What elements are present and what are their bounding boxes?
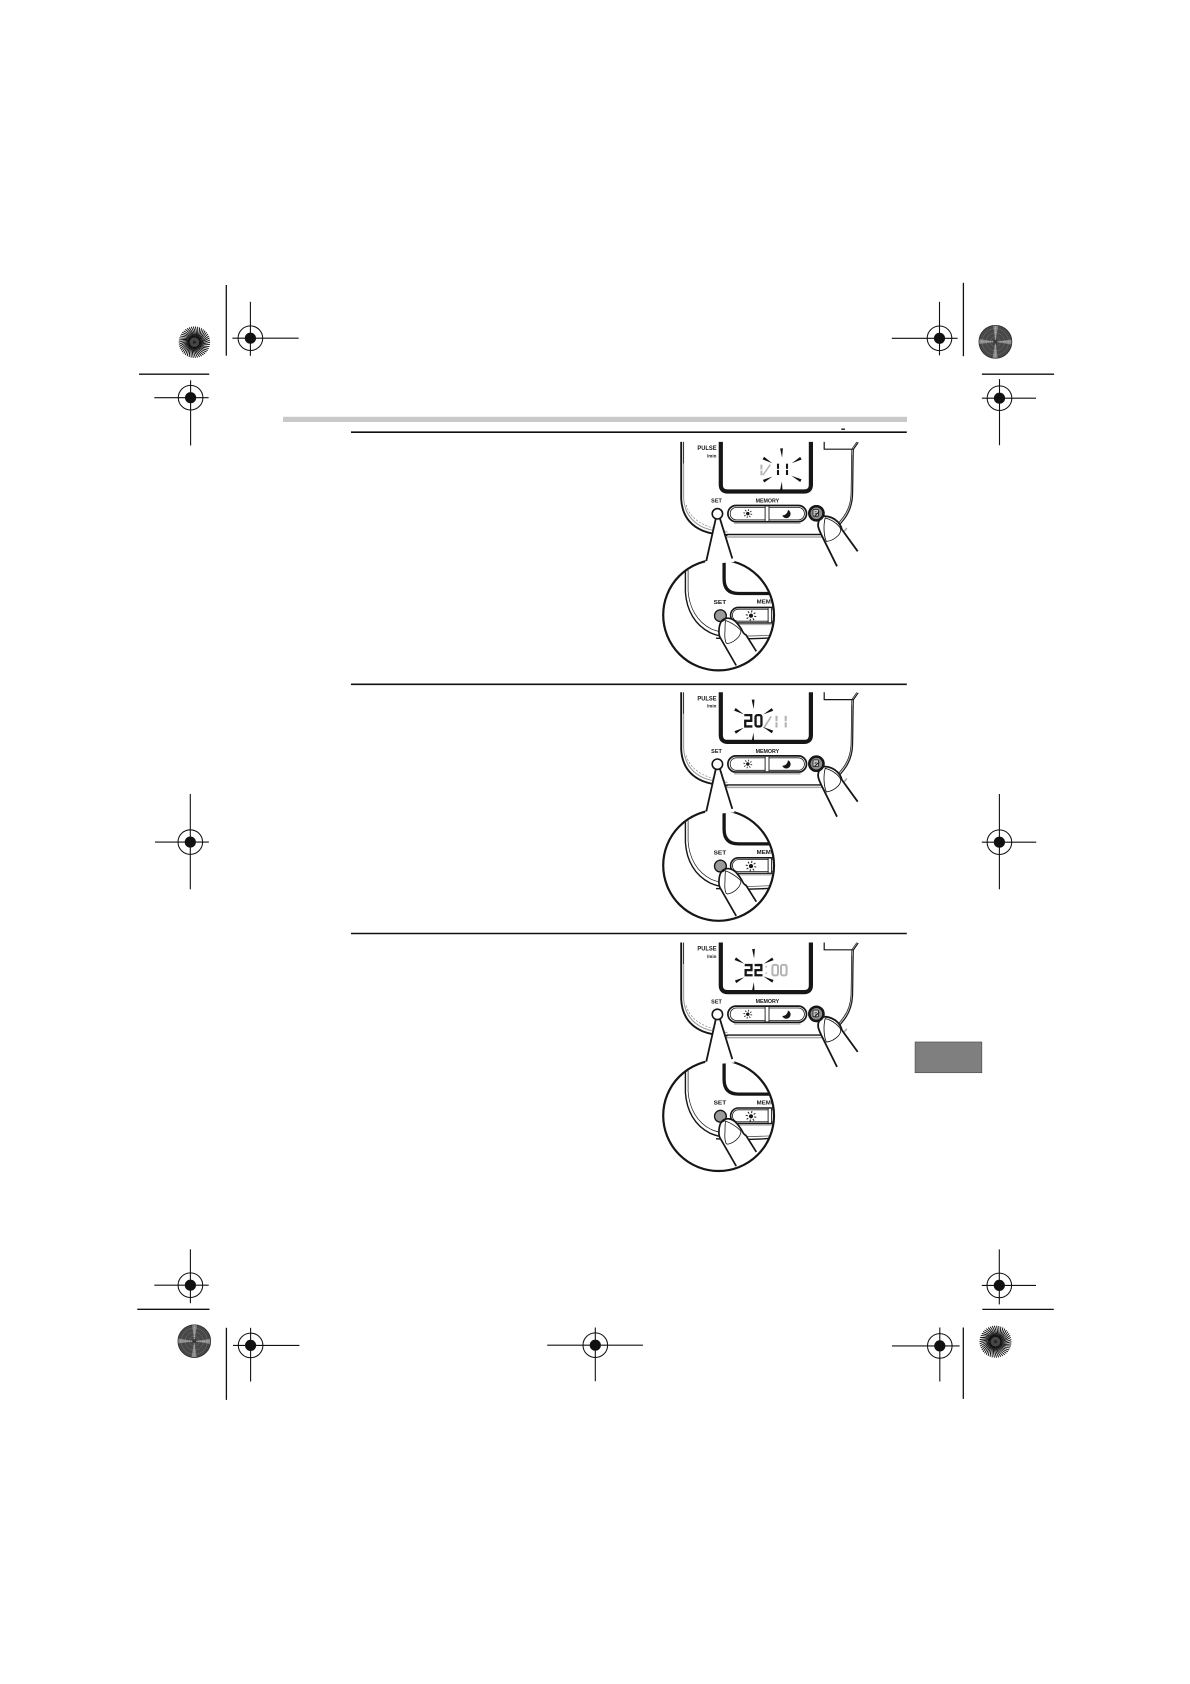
LCD digits fig1: 1/11 blinking <box>760 465 762 470</box>
gray side tab <box>915 1042 982 1073</box>
header rule <box>351 431 907 433</box>
registration crosshair right-middle <box>982 841 1036 843</box>
crop line vertical bottom-right <box>962 1328 964 1399</box>
registration crosshair bottom-right H <box>892 1345 960 1347</box>
registration crosshair bottom-left E <box>154 1284 208 1286</box>
registration crosshair top-left B <box>154 397 208 399</box>
separator 2 <box>351 933 907 935</box>
crop line vertical bottom-left <box>225 1328 227 1400</box>
LCD digits fig2: 20/11 blinking <box>744 715 752 726</box>
registration crosshair top-left A <box>232 337 298 339</box>
crop line horizontal right <box>982 373 1054 375</box>
crop line horizontal left <box>139 373 209 375</box>
stray art tick above rule <box>841 429 845 430</box>
separator 1 <box>351 683 907 685</box>
quad circle top-right <box>979 325 1012 358</box>
registration crosshair bottom-left F <box>233 1344 299 1346</box>
pinwheel mark top-left <box>195 342 210 344</box>
registration crosshair top-right D <box>982 397 1036 399</box>
gray header bar <box>283 417 907 422</box>
LCD digits fig3: 22:00 blinking <box>745 965 753 975</box>
registration crosshair bottom-center <box>547 1344 643 1346</box>
pinwheel mark bottom-right <box>996 1342 1011 1344</box>
registration crosshair bottom-right G <box>982 1284 1036 1286</box>
crop line horizontal bottom-left <box>137 1308 209 1310</box>
figure step 2 <box>663 692 858 920</box>
crop line horizontal bottom-right <box>982 1308 1054 1310</box>
figure step 3 <box>663 943 858 1172</box>
crop line vertical top-left <box>225 285 227 356</box>
figure step 1 <box>663 442 858 670</box>
quad circle bottom-left <box>178 1325 211 1358</box>
crop line vertical top-right <box>962 283 964 356</box>
registration crosshair left-middle <box>155 841 209 843</box>
registration crosshair top-right C <box>892 337 958 339</box>
